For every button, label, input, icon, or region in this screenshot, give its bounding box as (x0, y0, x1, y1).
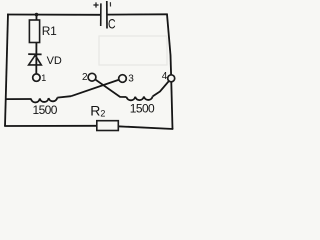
svg-text:VD: VD (47, 55, 62, 67)
svg-text:1500: 1500 (130, 102, 155, 116)
wire diagonal right coil to terminal 4 (153, 78, 172, 96)
terminal 4 (168, 75, 175, 82)
bleed-through ghost rectangle (99, 36, 167, 65)
capacitor C right plate (106, 1, 108, 29)
wire diagonal to terminal 3 (71, 79, 123, 97)
wire top left segment (7, 14, 100, 16)
inductor L2 right coil 1500 (127, 96, 153, 100)
resistor R2 (97, 121, 119, 131)
wire bottom left to R2 (4, 125, 97, 127)
svg-text:2: 2 (82, 72, 88, 83)
wire left coil to diagonal (57, 96, 71, 97)
svg-text:R1: R1 (42, 24, 57, 38)
svg-text:1: 1 (41, 73, 46, 83)
wire winding horizontal from left border (6, 98, 32, 100)
diode VD triangle (29, 55, 42, 65)
wire right border (167, 14, 173, 129)
wire diagonal terminal 2 to right coil (92, 77, 127, 97)
polarity tick mark (109, 2, 111, 6)
terminal 2 (88, 73, 96, 81)
wire R1 branch vertical (35, 15, 37, 78)
plus polarity mark (93, 2, 98, 7)
wire R2 to bottom right corner (118, 126, 174, 129)
capacitor C left plate (100, 3, 102, 26)
svg-text:1500: 1500 (33, 103, 58, 117)
resistor R1 (29, 20, 39, 43)
junction dot at R1 top (35, 13, 39, 17)
paper background (0, 0, 185, 138)
terminal 1 (33, 74, 40, 81)
wire top right segment (107, 13, 168, 15)
wire left border (5, 14, 8, 126)
svg-text:3: 3 (128, 73, 134, 84)
terminal 3 (119, 75, 127, 83)
svg-text:4: 4 (162, 71, 168, 82)
svg-text:C: C (108, 15, 116, 31)
inductor L1 left coil 1500 (31, 98, 57, 103)
diode VD cathode bar (28, 53, 41, 55)
